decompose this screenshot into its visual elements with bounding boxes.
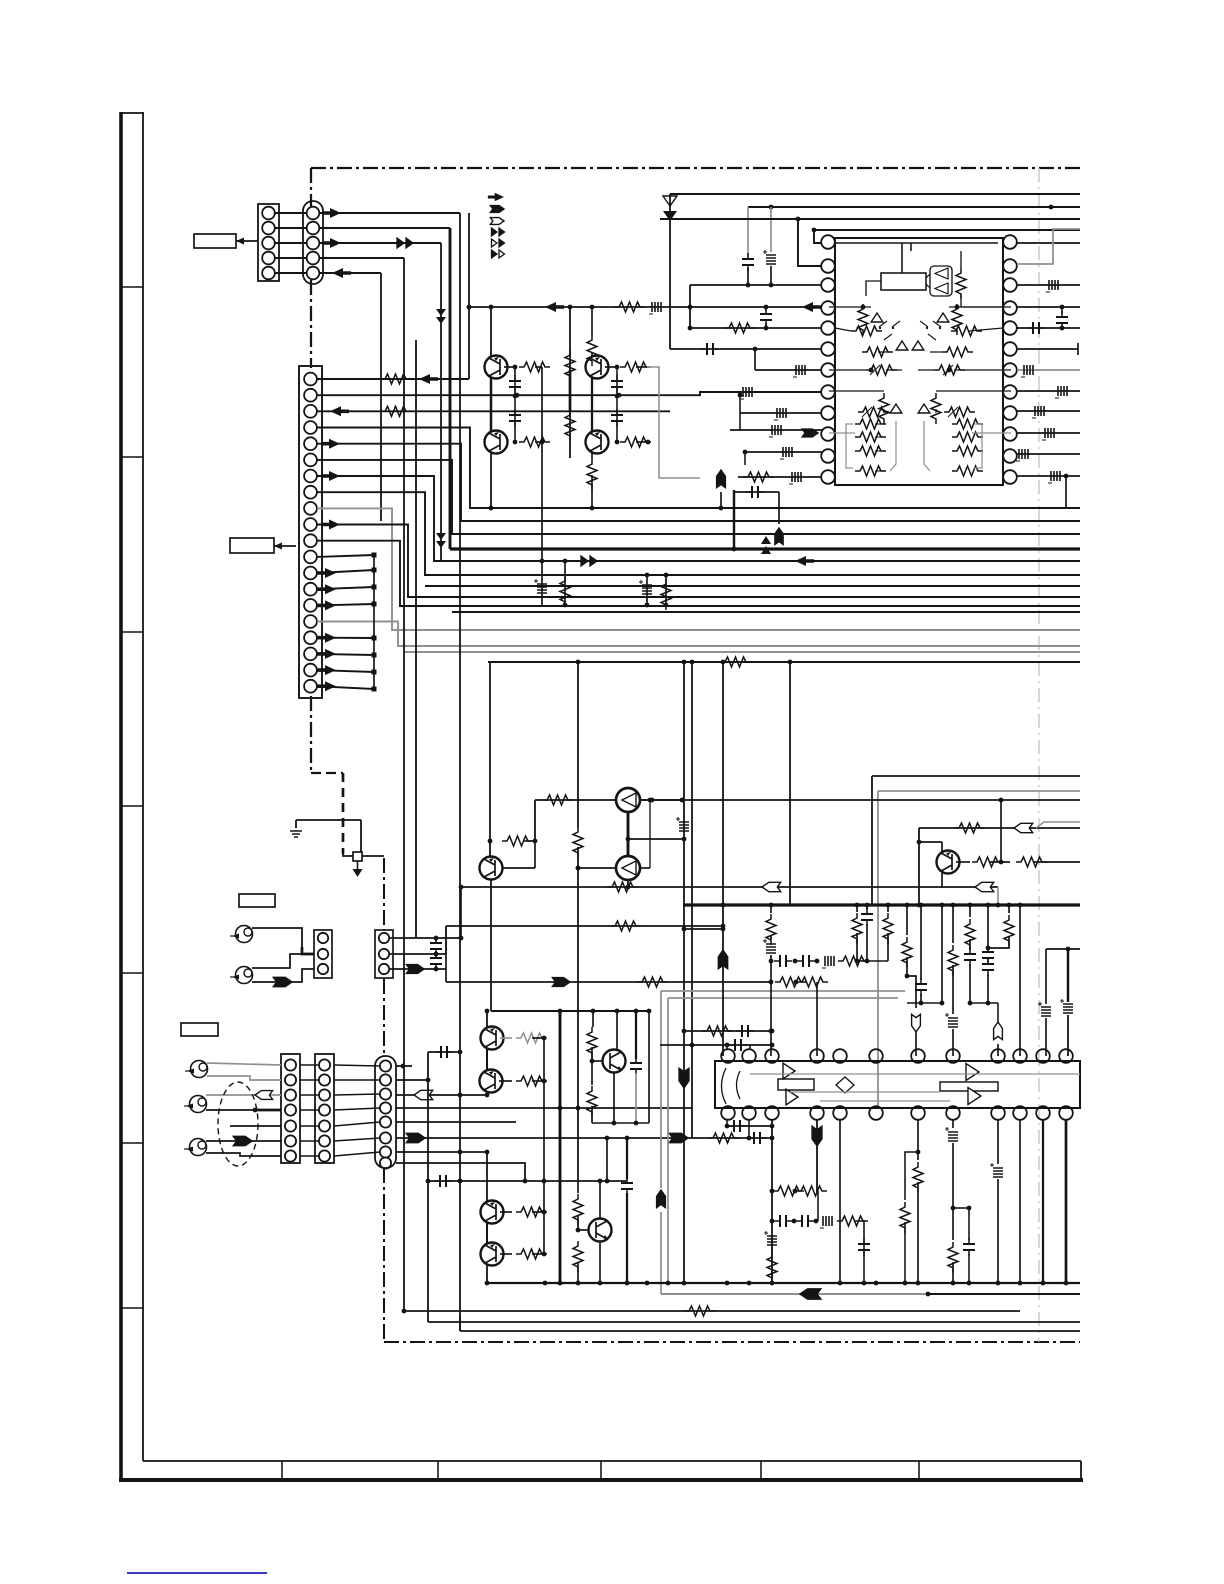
IC U1 right pin 21 [1003, 301, 1017, 315]
wire ellipse mid [230, 1125, 281, 1127]
chain y961 resistor [838, 956, 869, 966]
label box L3 [239, 894, 275, 907]
bus line y612 [452, 611, 1080, 613]
connector CN-C pin 13 [304, 567, 317, 580]
chain y961 capacitor 1 [774, 960, 792, 962]
connector E8 pin 1 [380, 1060, 391, 1071]
label box L4 [181, 1023, 218, 1036]
bus y1283 junction [1064, 1281, 1069, 1286]
wire E8 pin8 [396, 1163, 525, 1181]
wire Q11 emitter [613, 1073, 615, 1124]
wire CN-C pin7 bracket [317, 476, 1080, 561]
capacitor feed y1052 [428, 1051, 460, 1053]
wire C7-D8 link 7 [300, 1155, 319, 1157]
bus y905 junction [886, 903, 891, 908]
connector C7 pin 6 [285, 1135, 296, 1146]
IC1 pin2 feed corner [798, 219, 822, 266]
electrolytic x953 [948, 1018, 958, 1027]
transistor Q5 buffer [616, 788, 640, 812]
connector CN-C pin 18 [304, 648, 317, 661]
transistor Q1 [485, 356, 508, 379]
vertical x723 mid [722, 662, 724, 905]
U2 internal gray bus b [790, 1091, 940, 1093]
wire Q12-Q13 link [486, 1223, 488, 1243]
arrow down U2 pin4 [816, 1119, 818, 1130]
drop x771 resistor [770, 905, 772, 913]
U1 right pin8 wire [1017, 390, 1080, 392]
IC U1 left pin 8 [821, 385, 835, 399]
shield drop x361 [360, 820, 362, 852]
IC U2 bottom pin 8 [946, 1106, 960, 1120]
capacitor on IC1 pin8 feed [743, 387, 752, 397]
bus y905 junction [1018, 903, 1023, 908]
board boundary dash-dot bottom [384, 1341, 1080, 1343]
hanging electrolytic x647 [646, 575, 648, 605]
wire dashed drop to square [343, 854, 353, 856]
resistor R2 right of Q8 [1016, 857, 1047, 867]
up arrow x779 [778, 492, 780, 524]
connector CN-B pin 3 [307, 237, 320, 250]
drop U2 pin1 [726, 1119, 728, 1126]
IC U2 bottom pin 5 [833, 1106, 847, 1120]
drop x953 resistor [952, 905, 954, 943]
bus y905 junction [919, 903, 924, 908]
board boundary dash-dot left segment 1 [310, 168, 312, 206]
wire Q14 base [578, 1229, 589, 1231]
bus line y662 [488, 661, 1080, 663]
IC U2 bottom pin 3 [765, 1106, 779, 1120]
drop x1043b [1042, 1119, 1044, 1283]
wire CN-C pin6 bracket [317, 460, 1080, 534]
electrolytic x771 [766, 944, 776, 953]
wire J4 bottom thick [206, 1109, 255, 1111]
connector A3 pin 2 [318, 949, 328, 959]
page frame bottom inner border [143, 1460, 1081, 1462]
chain y1221 cap1 [774, 1220, 792, 1222]
drop x840 [839, 1119, 841, 1283]
double triangle up x770 [761, 536, 771, 554]
IC1 pin7 feed [755, 369, 822, 371]
IC U1 left pin 2 [821, 259, 835, 273]
transistor Q7 [480, 857, 503, 880]
wire E8 pin7 [396, 1151, 487, 1153]
connector CN-C pin 15 [304, 599, 317, 612]
fold line gray dash-dot [1038, 168, 1040, 1342]
frame bottom tick E [918, 1461, 920, 1479]
arrow into label box L2 [274, 545, 296, 547]
drop x988 capacitors [987, 905, 989, 948]
transistor Q8 [937, 851, 960, 874]
connector CN-A pin 3 [262, 237, 275, 250]
U1 right pin2 gray wire [1017, 229, 1080, 264]
drop x998 ecap [997, 1119, 999, 1164]
gray line y791 [878, 790, 1080, 792]
long vertical wire x404 [403, 258, 405, 1311]
U1 internal res row R3 [952, 446, 983, 456]
connector D8 pin 2 [319, 1074, 330, 1085]
cap link y949 right [1046, 948, 1080, 950]
U1 left pin arrow pin4 [802, 302, 821, 312]
page frame left inner border [142, 112, 144, 1461]
resistor x578 upper [577, 1181, 579, 1193]
drop x918 resistor [917, 1119, 919, 1160]
resistor x578 lower [573, 1241, 583, 1272]
IC U2 top pin 4 [810, 1049, 824, 1063]
corner x404 [402, 1309, 407, 1314]
bottom bus y1283 [487, 1282, 1080, 1284]
capacitor right of Q11 [635, 1011, 637, 1059]
cap x969 low [968, 1208, 970, 1240]
wire CN-B pin4 run [319, 257, 404, 259]
U1 internal res row R2 [952, 432, 983, 442]
drop x921 capacitor [920, 905, 922, 980]
IC1 pin11 feed [745, 451, 822, 453]
thick link Q5-Q6 [627, 812, 630, 856]
wire D8-E8 link 6 [334, 1138, 380, 1141]
U1 internal left amp cluster [858, 304, 868, 335]
frame bottom tick A [281, 1461, 283, 1479]
connector D8 body [315, 1054, 334, 1163]
U1 internal res row R4 [952, 466, 983, 476]
U1 right pin10 wire [1017, 432, 1080, 434]
vertical x428 [427, 1052, 429, 1322]
vertical x684 long [683, 662, 685, 1283]
connector CN-C pin 3 [304, 405, 317, 418]
electrolytic x684 [679, 822, 689, 831]
gray vertical x668 [667, 998, 669, 1283]
board boundary dashed drop [342, 773, 345, 854]
chain y1221 ecap [823, 1216, 832, 1226]
IC U2 top pin 3 [765, 1049, 779, 1063]
bus y905 junction [855, 903, 860, 908]
connector A3 body [314, 930, 332, 978]
IC U2 bottom pin 10 [1013, 1106, 1027, 1120]
wire CN-C pin11 bracket [317, 541, 1080, 606]
U1 internal resistor vertical [956, 268, 966, 299]
IC U2 bottom pin 6 [869, 1106, 883, 1120]
connector CN-A body [258, 204, 279, 281]
wire Q1 base lead [504, 366, 515, 368]
gray return y1294 [661, 1293, 928, 1295]
resistor right of Q12 [500, 1211, 512, 1213]
resistor on x578b [573, 827, 583, 858]
capacitor across pin4-pin5 [1061, 307, 1063, 314]
resistor R-a on y307 [614, 302, 645, 312]
U1 right pin4 wire [1017, 306, 1080, 308]
capacitor C-B3a [435, 938, 437, 941]
bus y905 junction [968, 903, 973, 908]
wire Q1-Q3 link thick [490, 378, 492, 431]
U2 internal res box 2 [940, 1082, 998, 1091]
bus y1283 junction [903, 1281, 908, 1286]
connector CN-C pin 4 [304, 421, 317, 434]
connector C7 pin 1 [285, 1059, 296, 1070]
gray bus 652 [404, 651, 1080, 653]
bus y1283 junction [543, 1281, 548, 1286]
wire CN-C pin16 gray run [317, 622, 1080, 647]
local rail y1123 [592, 1122, 649, 1124]
IC U2 bottom pin 11 [1036, 1106, 1050, 1120]
IC U1 left pin 10 [821, 427, 835, 441]
IC U2 bottom pin 7 [911, 1106, 925, 1120]
bus y1283 junction [682, 1281, 687, 1286]
wire C7-D8 link 3 [300, 1094, 319, 1096]
wire Q8 collector link [919, 841, 942, 843]
U1 internal buffer triangle upper [935, 268, 948, 279]
phono jack J5 [190, 1139, 207, 1156]
connector B3 pin 3 [379, 964, 389, 974]
IC1 pin5 feed [690, 327, 822, 329]
frame bottom tick C [600, 1461, 602, 1479]
IC U1 left pin 7 [821, 363, 835, 377]
vertical x570 with resistors [569, 307, 571, 458]
gray corner y991 [661, 990, 905, 992]
vertical riser x469 [468, 213, 470, 379]
wire B3 pin2 [390, 953, 446, 955]
U2 internal input stage [722, 1068, 741, 1104]
connector CN-C pin 19 [304, 664, 317, 677]
wire J5 top with arrow [206, 1140, 281, 1142]
wire CN-A to CN-B pin4 [275, 257, 307, 259]
top feed line y207 [748, 206, 1080, 208]
bus y1283 junction [645, 1281, 650, 1286]
U1 internal res row L1 [855, 419, 886, 429]
U1 internal lower right pot [944, 407, 975, 417]
IC1 pin6 feed [670, 348, 822, 350]
wire Q5 right [640, 799, 684, 801]
connector CN-A pin 5 [262, 267, 275, 280]
IC U2 top pin 12 [1059, 1049, 1073, 1063]
resistor right of Q13 [500, 1253, 512, 1255]
open arrow up x998 [994, 1022, 1003, 1040]
wire CN-B pin1 run [319, 212, 460, 214]
thick vertical x560 lower [559, 1011, 562, 1283]
wire CN-B pin5 run [319, 272, 381, 274]
top feed line y230 [814, 229, 1080, 231]
resistor R-Q4 [620, 437, 651, 447]
connector CN-B pin 1 [307, 207, 320, 220]
frame zone tick 7 [121, 1307, 143, 1309]
IC U2 top pin 9 [991, 1049, 1005, 1063]
hanging resistor x565 [564, 561, 566, 605]
legend chevron open [490, 218, 504, 225]
wire C7-D8 link 5 [300, 1125, 319, 1127]
bus y1283 junction [558, 1281, 563, 1286]
transistor Q2 [586, 356, 609, 379]
wire Q2-Q4 link [591, 378, 593, 431]
top feed line y219 [660, 218, 1080, 220]
connector CN-C body [299, 366, 322, 698]
wire Q9-Q10 link [486, 1049, 488, 1070]
U1 internal right pot resistor [951, 326, 982, 336]
riser x446b [445, 926, 447, 982]
connector C7 pin 4 [285, 1104, 296, 1115]
wire D8-E8 link 1 [334, 1065, 380, 1066]
shield terminal square [353, 852, 362, 861]
wire Q9 collector [486, 1011, 488, 1027]
wire Q6 right [640, 867, 650, 869]
bus y1283 junction [951, 1281, 956, 1286]
wire CN-C pin20 to bundle [317, 686, 374, 689]
IC U2 top pin 5 [833, 1049, 847, 1063]
vertical x593 with resistor [592, 1011, 594, 1027]
connector CN-C pin 11 [304, 534, 317, 547]
link riser x650 [649, 800, 651, 868]
connector C7 pin 2 [285, 1074, 296, 1085]
vertical x692 mid [691, 662, 693, 1138]
ground symbol [290, 831, 302, 837]
wire CN-C pin4 bracket [317, 428, 1080, 509]
line y776 corner [872, 775, 1080, 777]
bus y1283 junction [1018, 1281, 1023, 1286]
connector D8 pin 6 [319, 1135, 330, 1146]
resistor right of Q9 [500, 1037, 512, 1039]
vertical x544 long [543, 1038, 545, 1254]
wire D8-E8 link 3 [334, 1094, 380, 1095]
bus y905 junction [905, 903, 910, 908]
thick capacitor x627 [626, 1138, 628, 1179]
diode D1 cathode down [669, 194, 671, 349]
drop x942 [941, 905, 943, 1003]
bus line y586 [425, 585, 1080, 587]
connector CN-C pin 20 [304, 680, 317, 693]
electrolytic drop x1046 [1045, 949, 1047, 1004]
corner x416 end [459, 885, 464, 890]
connector CN-A pin 4 [262, 252, 275, 265]
double triangle on CN-B pin3 wire [397, 238, 404, 248]
wire CN-C pin18 to bundle [317, 654, 374, 655]
IC U1 right pin 15 [1003, 427, 1017, 441]
drop x723 with up arrow [722, 905, 724, 1056]
wire Q8 emitter [941, 873, 943, 888]
vertical x607 drop [606, 1138, 608, 1181]
link y929 [684, 928, 723, 930]
wire D8-E8 link 4 [334, 1108, 380, 1110]
drop x888 resistor [887, 905, 889, 912]
chain y1221 res [837, 1216, 868, 1226]
gray vertical x661 [660, 991, 662, 1188]
vertical x1001 [1000, 800, 1002, 862]
U1 internal left amp2 [896, 341, 908, 350]
U1 internal res row L4 [855, 466, 886, 476]
legend triangle solid+open [492, 250, 505, 258]
line y1311 with resistor [404, 1310, 1020, 1312]
drop x1020 [1019, 905, 1021, 1056]
drop x953 ecap [952, 1119, 954, 1128]
wire drop from pin12 line [1065, 476, 1067, 508]
gray wire J3 top [207, 1063, 281, 1065]
wire CN-C pin9 gray bracket [317, 508, 1080, 630]
wire CN-C pin15 to bundle [317, 604, 374, 605]
bus y905 junction [940, 903, 945, 908]
resistor above Q7 [502, 836, 533, 846]
IC U2 top pin 7 [911, 1049, 925, 1063]
U1 internal buffer triangle lower [935, 283, 948, 294]
capacitor C-a on y307 [652, 302, 661, 312]
connector C7 body [281, 1054, 300, 1163]
connector B3 pin 2 [379, 949, 389, 959]
connector A3 pin 3 [318, 964, 328, 974]
gray ecap drop x771 [770, 207, 772, 252]
wire E8 pin6 with arrows [396, 1137, 772, 1139]
line y1322 [428, 1321, 1080, 1323]
IC1 pin12 feed [738, 476, 822, 478]
wire CN-C pin8 bracket [317, 492, 1080, 575]
branch x969 [953, 1207, 969, 1209]
IC U1 right pin 23 [1003, 259, 1017, 273]
terminal arrow down [357, 861, 359, 869]
connector CN-A pin 2 [262, 222, 275, 235]
bus y905 junction [865, 903, 870, 908]
U1 internal gray feed left [890, 421, 896, 471]
frame bottom right close [1080, 1461, 1082, 1479]
phono jack J4 [190, 1096, 207, 1113]
IC U1 right pin 22 [1003, 278, 1017, 292]
gray cap drop x748 [747, 207, 749, 256]
corner x535 drop [534, 800, 536, 841]
board boundary dash-dot lower vertical seg 2 [383, 979, 385, 1055]
wire B3 pin1 [390, 937, 461, 939]
legend chevron solid [490, 206, 504, 213]
vertical x790 mid [789, 662, 791, 905]
resistor right of Q10 [499, 1080, 512, 1082]
resistor right of Q8 [956, 861, 970, 863]
vertical x872 [871, 776, 873, 905]
page frame left outer border [119, 112, 123, 1480]
IC1 pin3 feed [690, 284, 822, 286]
transistor Q4 [586, 431, 609, 454]
resistor x772 low [767, 1252, 777, 1283]
connector D8 pin 4 [319, 1104, 330, 1115]
vertical x542 with electrolytic [541, 367, 543, 605]
IC U1 right pin 13 [1003, 470, 1017, 484]
wire Q12 collector [486, 1152, 488, 1201]
drop x970 resistor [969, 905, 971, 917]
black return y1294 [928, 1293, 1080, 1295]
connector E8 pin 7 [380, 1146, 391, 1157]
wire J2 bottom with arrow [252, 969, 314, 982]
bus y1283 junction [967, 1281, 972, 1286]
IC U2 top pin 8 [946, 1049, 960, 1063]
IC U1 right pin 17 [1003, 385, 1017, 399]
phono jack J1 [236, 926, 253, 943]
op-amp IC U1 body [835, 238, 1003, 485]
wire Q1 collector [490, 307, 492, 356]
chain y982 resistor 1 [775, 977, 806, 987]
drop x867 capacitor [866, 905, 868, 910]
bus y1283 junction [996, 1281, 1001, 1286]
bus y905 junction [769, 903, 774, 908]
IC U1 right pin 20 [1003, 321, 1017, 335]
resistor on y662 [720, 657, 751, 667]
connector CN-B pin 2 [307, 222, 320, 235]
wire Q4 emitter resistor [591, 453, 593, 459]
connector CN-A pin 1 [262, 207, 275, 220]
wire CN-C pin12 to bundle [317, 555, 374, 557]
junction x544 y1181 [542, 1179, 547, 1184]
IC U1 left pin 4 [821, 301, 835, 315]
bus y905 junction [986, 903, 991, 908]
U1 internal wires top [866, 281, 881, 296]
thick drop x734 [733, 490, 735, 549]
wire Q11 base [592, 1060, 603, 1062]
connector E8 pin 2 [380, 1074, 391, 1085]
IC U1 right pin 24 [1003, 235, 1017, 249]
capacitor stack x617 [616, 367, 618, 442]
U2 internal amp tri 1 [783, 1063, 795, 1079]
IC U1 right pin 19 [1003, 342, 1017, 356]
feed line y1031 [684, 1030, 772, 1032]
